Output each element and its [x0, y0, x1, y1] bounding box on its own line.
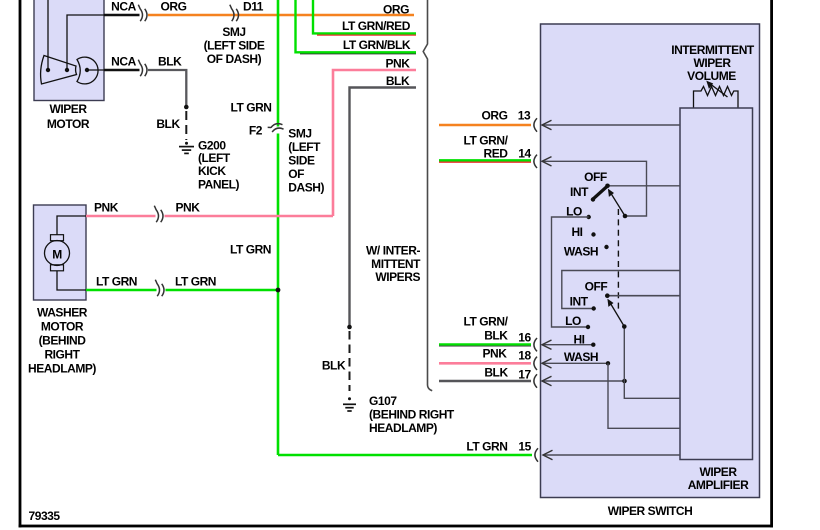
svg-text:MOTOR: MOTOR	[47, 117, 90, 131]
svg-text:HEADLAMP): HEADLAMP)	[28, 361, 96, 375]
connector SMJ F2	[249, 122, 325, 194]
pin 17 connector	[534, 374, 537, 387]
svg-text:HI: HI	[573, 332, 584, 346]
svg-text:INTERMITTENT: INTERMITTENT	[671, 43, 755, 57]
svg-text:PNK: PNK	[94, 200, 119, 214]
upper switch lever	[593, 186, 608, 200]
svg-text:15: 15	[518, 440, 531, 454]
pin 16 arrow and lead to lower switch HI	[542, 340, 592, 349]
svg-text:LT GRN: LT GRN	[230, 100, 271, 114]
wiper amplifier U1 (inner box)	[680, 108, 753, 492]
svg-text:LT GRN/: LT GRN/	[464, 133, 509, 147]
svg-text:HI: HI	[571, 225, 582, 239]
lower switch common lead to amplifier	[622, 324, 680, 398]
svg-text:17: 17	[518, 367, 531, 381]
wire NCA (wiper motor top lead)	[104, 0, 140, 15]
svg-text:WIPER: WIPER	[699, 465, 737, 479]
mechanical link (dashed)	[617, 209, 619, 311]
svg-text:OFF: OFF	[585, 279, 608, 293]
pin 14 connector	[534, 155, 537, 168]
lower switch SW2 (washer) labels	[564, 279, 608, 364]
svg-text:WASH: WASH	[564, 244, 598, 258]
intermittent wiper volume resistor R1	[694, 81, 739, 108]
svg-text:LT GRN/BLK: LT GRN/BLK	[343, 38, 411, 52]
svg-text:(BEHIND: (BEHIND	[39, 333, 87, 347]
wire ORG pin 13	[439, 108, 531, 125]
upper switch OFF contact and lead	[605, 184, 680, 189]
wire LT GRN/RED (to brace bundle)	[313, 0, 416, 35]
svg-text:LT GRN: LT GRN	[230, 242, 271, 256]
svg-text:WIPERS: WIPERS	[375, 270, 420, 284]
svg-text:M: M	[52, 248, 62, 262]
svg-text:NCA: NCA	[111, 0, 136, 13]
svg-text:SMJ: SMJ	[222, 25, 245, 39]
wire BLK (to ground G200)	[148, 70, 189, 140]
svg-text:ORG: ORG	[482, 108, 508, 122]
pin 15 connector	[535, 448, 538, 461]
svg-text:(LEFT: (LEFT	[288, 140, 321, 154]
upper switch SW1 (wiper mode) labels	[564, 170, 607, 259]
connector C110 (LT GRN)	[155, 280, 164, 297]
wiper motor M1	[34, 0, 104, 131]
washer motor M2	[28, 205, 96, 375]
svg-text:79335: 79335	[29, 509, 61, 523]
svg-text:PNK: PNK	[483, 347, 508, 361]
svg-text:13: 13	[518, 108, 531, 122]
pin 17 arrow and lead to lower switch common	[542, 376, 627, 385]
svg-text:DASH): DASH)	[288, 181, 324, 195]
svg-text:AMPLIFIER: AMPLIFIER	[688, 478, 749, 492]
junction (LT GRN tee)	[276, 288, 281, 293]
connector C100 (NCA/BLK)	[138, 54, 182, 76]
svg-text:BLK: BLK	[484, 328, 508, 342]
lower switch contacts INT LO HI WASH	[586, 306, 610, 365]
svg-text:BLK: BLK	[158, 54, 182, 68]
svg-text:(LEFT SIDE: (LEFT SIDE	[204, 38, 265, 52]
pin 18 connector	[534, 357, 537, 370]
svg-text:RED: RED	[484, 146, 509, 160]
svg-text:G107: G107	[369, 394, 397, 408]
wire BLK pin 17	[439, 365, 531, 381]
wire LT GRN/RED pin 14	[439, 133, 531, 162]
wire NCA (wiper motor lower lead)	[104, 54, 140, 70]
svg-text:OF: OF	[288, 167, 304, 181]
wire BLK (W/ intermittent wipers, to brace bundle)	[350, 74, 422, 327]
svg-text:SIDE: SIDE	[288, 154, 315, 168]
wire LT GRN (washer motor ground side)	[86, 274, 278, 290]
lower switch OFF contact and lead	[605, 293, 680, 298]
svg-text:RIGHT: RIGHT	[44, 347, 80, 361]
svg-text:NCA: NCA	[111, 54, 136, 68]
wire LT GRN/BLK (to brace bundle)	[296, 0, 417, 54]
svg-text:LT GRN: LT GRN	[96, 274, 137, 288]
svg-text:ORG: ORG	[383, 3, 409, 17]
svg-text:SMJ: SMJ	[288, 127, 311, 141]
wire LT GRN/BLK pin 16	[439, 314, 531, 346]
svg-text:WASHER: WASHER	[37, 305, 88, 319]
svg-text:D11: D11	[243, 0, 264, 13]
svg-text:W/ INTER-: W/ INTER-	[366, 244, 420, 258]
wire upper LO to lower LO	[552, 217, 589, 327]
lower switch WASH lead to amplifier	[608, 363, 680, 428]
svg-text:(BEHIND RIGHT: (BEHIND RIGHT	[369, 407, 455, 421]
svg-text:KICK: KICK	[198, 164, 226, 178]
svg-text:LO: LO	[565, 314, 581, 328]
svg-text:WIPER: WIPER	[49, 102, 87, 116]
svg-text:BLK: BLK	[484, 365, 508, 379]
svg-text:LT GRN: LT GRN	[175, 274, 216, 288]
svg-text:LO: LO	[566, 204, 582, 218]
junction (BLK to ground tap)	[347, 325, 352, 330]
svg-text:LT GRN: LT GRN	[466, 440, 507, 454]
svg-text:MOTOR: MOTOR	[41, 319, 84, 333]
svg-text:OFF: OFF	[584, 170, 607, 184]
wire PNK (washer to brace bundle)	[333, 56, 416, 216]
svg-text:WIPER: WIPER	[693, 56, 731, 70]
lower switch wiper arrow	[607, 299, 624, 327]
wire BLK dashed (to ground G107)	[322, 331, 350, 391]
ground G200	[179, 138, 240, 191]
svg-text:F2: F2	[249, 123, 263, 137]
harness brace (wire bundle)	[423, 0, 432, 391]
svg-text:OF DASH): OF DASH)	[207, 52, 262, 66]
svg-text:LT GRN/: LT GRN/	[464, 314, 509, 328]
wire LT GRN pin 15	[278, 440, 532, 455]
svg-text:14: 14	[518, 146, 531, 160]
wire ORG (to SMJ D11)	[148, 0, 414, 17]
svg-text:PNK: PNK	[176, 200, 201, 214]
svg-text:LT GRN/RED: LT GRN/RED	[342, 19, 411, 33]
svg-text:MITTENT: MITTENT	[371, 257, 421, 271]
connector C110 (PNK)	[154, 206, 163, 223]
connector SMJ D11	[204, 0, 265, 66]
pin 15 arrow and lead to amplifier	[543, 450, 680, 459]
connector C100 (NCA/ORG)	[138, 5, 147, 22]
ground G107	[343, 394, 455, 435]
pin 13 connector	[534, 118, 537, 131]
svg-text:16: 16	[518, 330, 531, 344]
wiper switch U2 (outer box)	[541, 24, 760, 518]
svg-text:WIPER SWITCH: WIPER SWITCH	[608, 504, 693, 518]
svg-text:INT: INT	[570, 294, 589, 308]
svg-text:ORG: ORG	[161, 0, 187, 13]
svg-text:(LEFT: (LEFT	[198, 151, 231, 165]
wire PNK (washer motor feed)	[86, 200, 333, 216]
wire LT GRN (main feed, vertical)	[230, 0, 278, 455]
svg-text:BLK: BLK	[156, 117, 180, 131]
svg-text:PNK: PNK	[386, 56, 411, 70]
pin 18 arrow and lead to lower switch WASH	[542, 359, 607, 368]
lower switch INT lead	[562, 271, 680, 309]
svg-text:PANEL): PANEL)	[198, 177, 240, 191]
svg-text:VOLUME: VOLUME	[687, 69, 736, 83]
svg-text:WASH: WASH	[564, 350, 598, 364]
pin 13 arrow and lead to amplifier	[542, 120, 680, 129]
upper switch wiper arrow	[608, 189, 625, 216]
svg-text:BLK: BLK	[322, 358, 346, 372]
pin 14 arrow and lead to upper switch common	[542, 157, 647, 219]
svg-text:INT: INT	[570, 185, 589, 199]
svg-text:BLK: BLK	[386, 74, 410, 88]
wire PNK pin 18	[439, 347, 531, 364]
pin 16 connector	[534, 338, 537, 351]
svg-text:HEADLAMP): HEADLAMP)	[369, 421, 437, 435]
svg-text:18: 18	[518, 348, 531, 362]
upper switch contacts INT LO HI WASH	[587, 197, 609, 249]
